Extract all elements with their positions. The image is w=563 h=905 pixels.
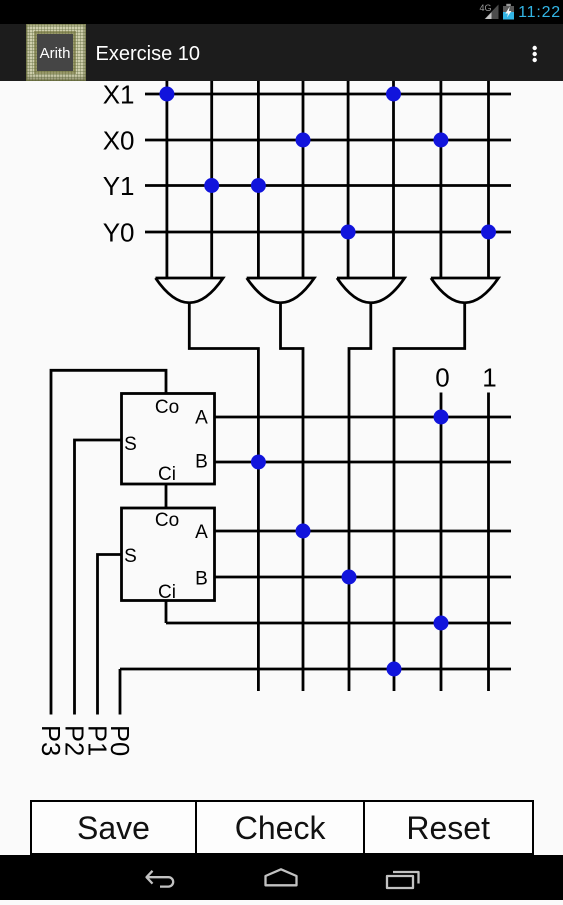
svg-text:Y0: Y0 [103, 217, 135, 247]
svg-text:0: 0 [435, 363, 449, 393]
svg-text:X0: X0 [103, 125, 135, 155]
svg-text:Ci: Ci [158, 582, 176, 603]
svg-text:Co: Co [155, 510, 179, 531]
svg-text:B: B [195, 452, 208, 473]
svg-text:P0: P0 [105, 725, 133, 756]
svg-text:1: 1 [482, 363, 496, 393]
svg-text:Ci: Ci [158, 464, 176, 485]
svg-text:4G: 4G [480, 3, 492, 13]
svg-text:X1: X1 [103, 79, 135, 109]
svg-text:Y1: Y1 [103, 171, 135, 201]
svg-text:A: A [195, 522, 208, 543]
svg-text:A: A [195, 408, 208, 429]
svg-text:B: B [195, 568, 208, 589]
svg-text:S: S [124, 546, 137, 567]
svg-text:Co: Co [155, 397, 179, 418]
svg-text:S: S [124, 434, 137, 455]
